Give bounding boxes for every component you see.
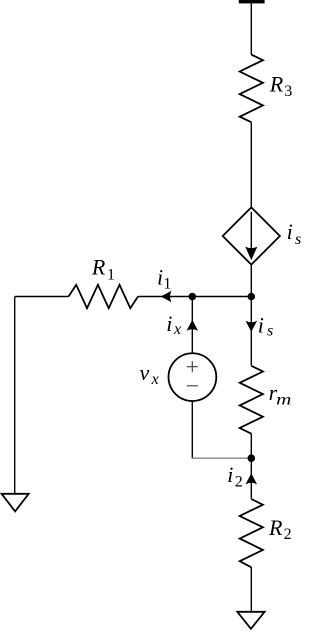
svg-text:i: i <box>258 312 264 337</box>
svg-text:1: 1 <box>163 275 171 292</box>
svg-text:x: x <box>173 321 181 338</box>
svg-text:i: i <box>157 264 163 289</box>
svg-text:R: R <box>268 515 283 540</box>
svg-text:3: 3 <box>284 83 292 100</box>
svg-text:i: i <box>166 311 172 336</box>
svg-text:1: 1 <box>107 267 115 284</box>
svg-text:R: R <box>269 72 284 97</box>
svg-text:s: s <box>267 322 273 339</box>
svg-text:2: 2 <box>235 473 243 490</box>
svg-text:2: 2 <box>284 526 292 543</box>
svg-text:x: x <box>151 371 159 388</box>
svg-text:i: i <box>287 219 293 244</box>
svg-text:s: s <box>295 231 301 248</box>
svg-text:i: i <box>227 462 233 487</box>
svg-text:R: R <box>91 254 106 279</box>
svg-text:v: v <box>140 360 150 385</box>
svg-text:m: m <box>276 392 291 409</box>
